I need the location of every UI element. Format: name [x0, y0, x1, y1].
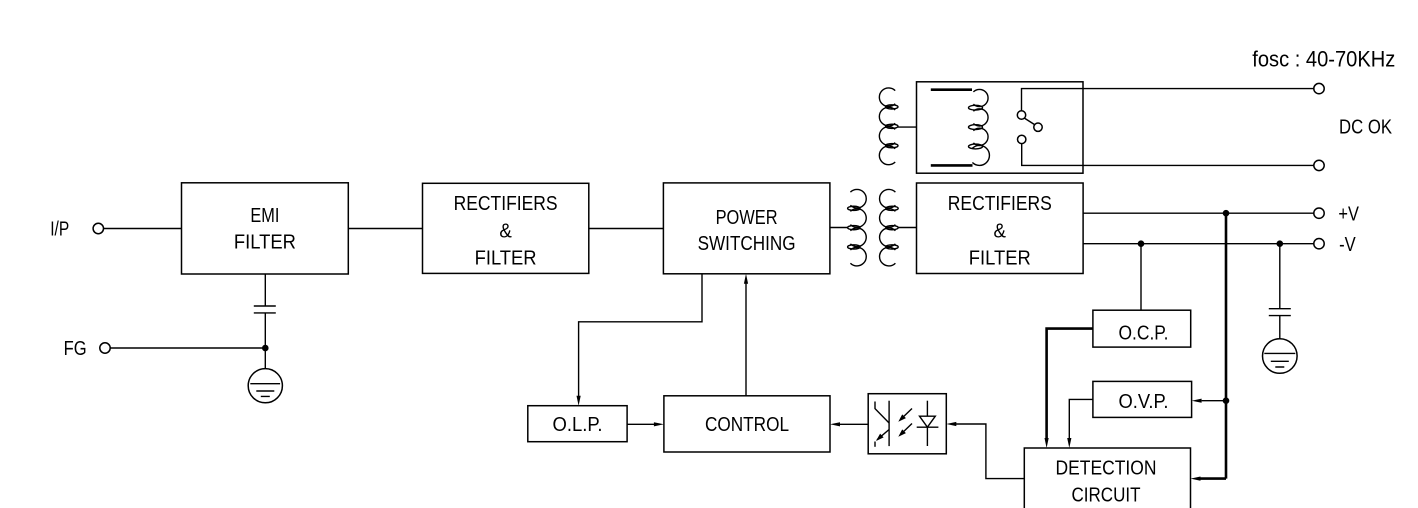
svg-text:&: &: [499, 219, 512, 242]
svg-text:DC OK: DC OK: [1339, 116, 1392, 139]
svg-text:CONTROL: CONTROL: [705, 413, 789, 436]
svg-text:&: &: [994, 219, 1007, 242]
svg-text:FILTER: FILTER: [969, 247, 1031, 270]
svg-text:DETECTION: DETECTION: [1056, 457, 1157, 480]
svg-text:RECTIFIERS: RECTIFIERS: [454, 192, 558, 215]
svg-text:SWITCHING: SWITCHING: [698, 232, 796, 255]
svg-text:FILTER: FILTER: [234, 231, 296, 254]
svg-text:EMI: EMI: [250, 204, 279, 227]
svg-text:O.V.P.: O.V.P.: [1119, 390, 1169, 413]
svg-text:I/P: I/P: [50, 218, 69, 241]
svg-text:fosc : 40-70KHz: fosc : 40-70KHz: [1252, 47, 1395, 72]
svg-text:RECTIFIERS: RECTIFIERS: [948, 192, 1052, 215]
svg-text:FILTER: FILTER: [475, 247, 537, 270]
svg-text:CIRCUIT: CIRCUIT: [1072, 484, 1141, 507]
svg-text:POWER: POWER: [716, 206, 778, 229]
svg-text:O.C.P.: O.C.P.: [1119, 321, 1169, 344]
svg-text:O.L.P.: O.L.P.: [553, 413, 603, 436]
svg-text:+V: +V: [1338, 202, 1359, 225]
svg-text:FG: FG: [64, 337, 87, 360]
svg-text:-V: -V: [1339, 233, 1356, 256]
